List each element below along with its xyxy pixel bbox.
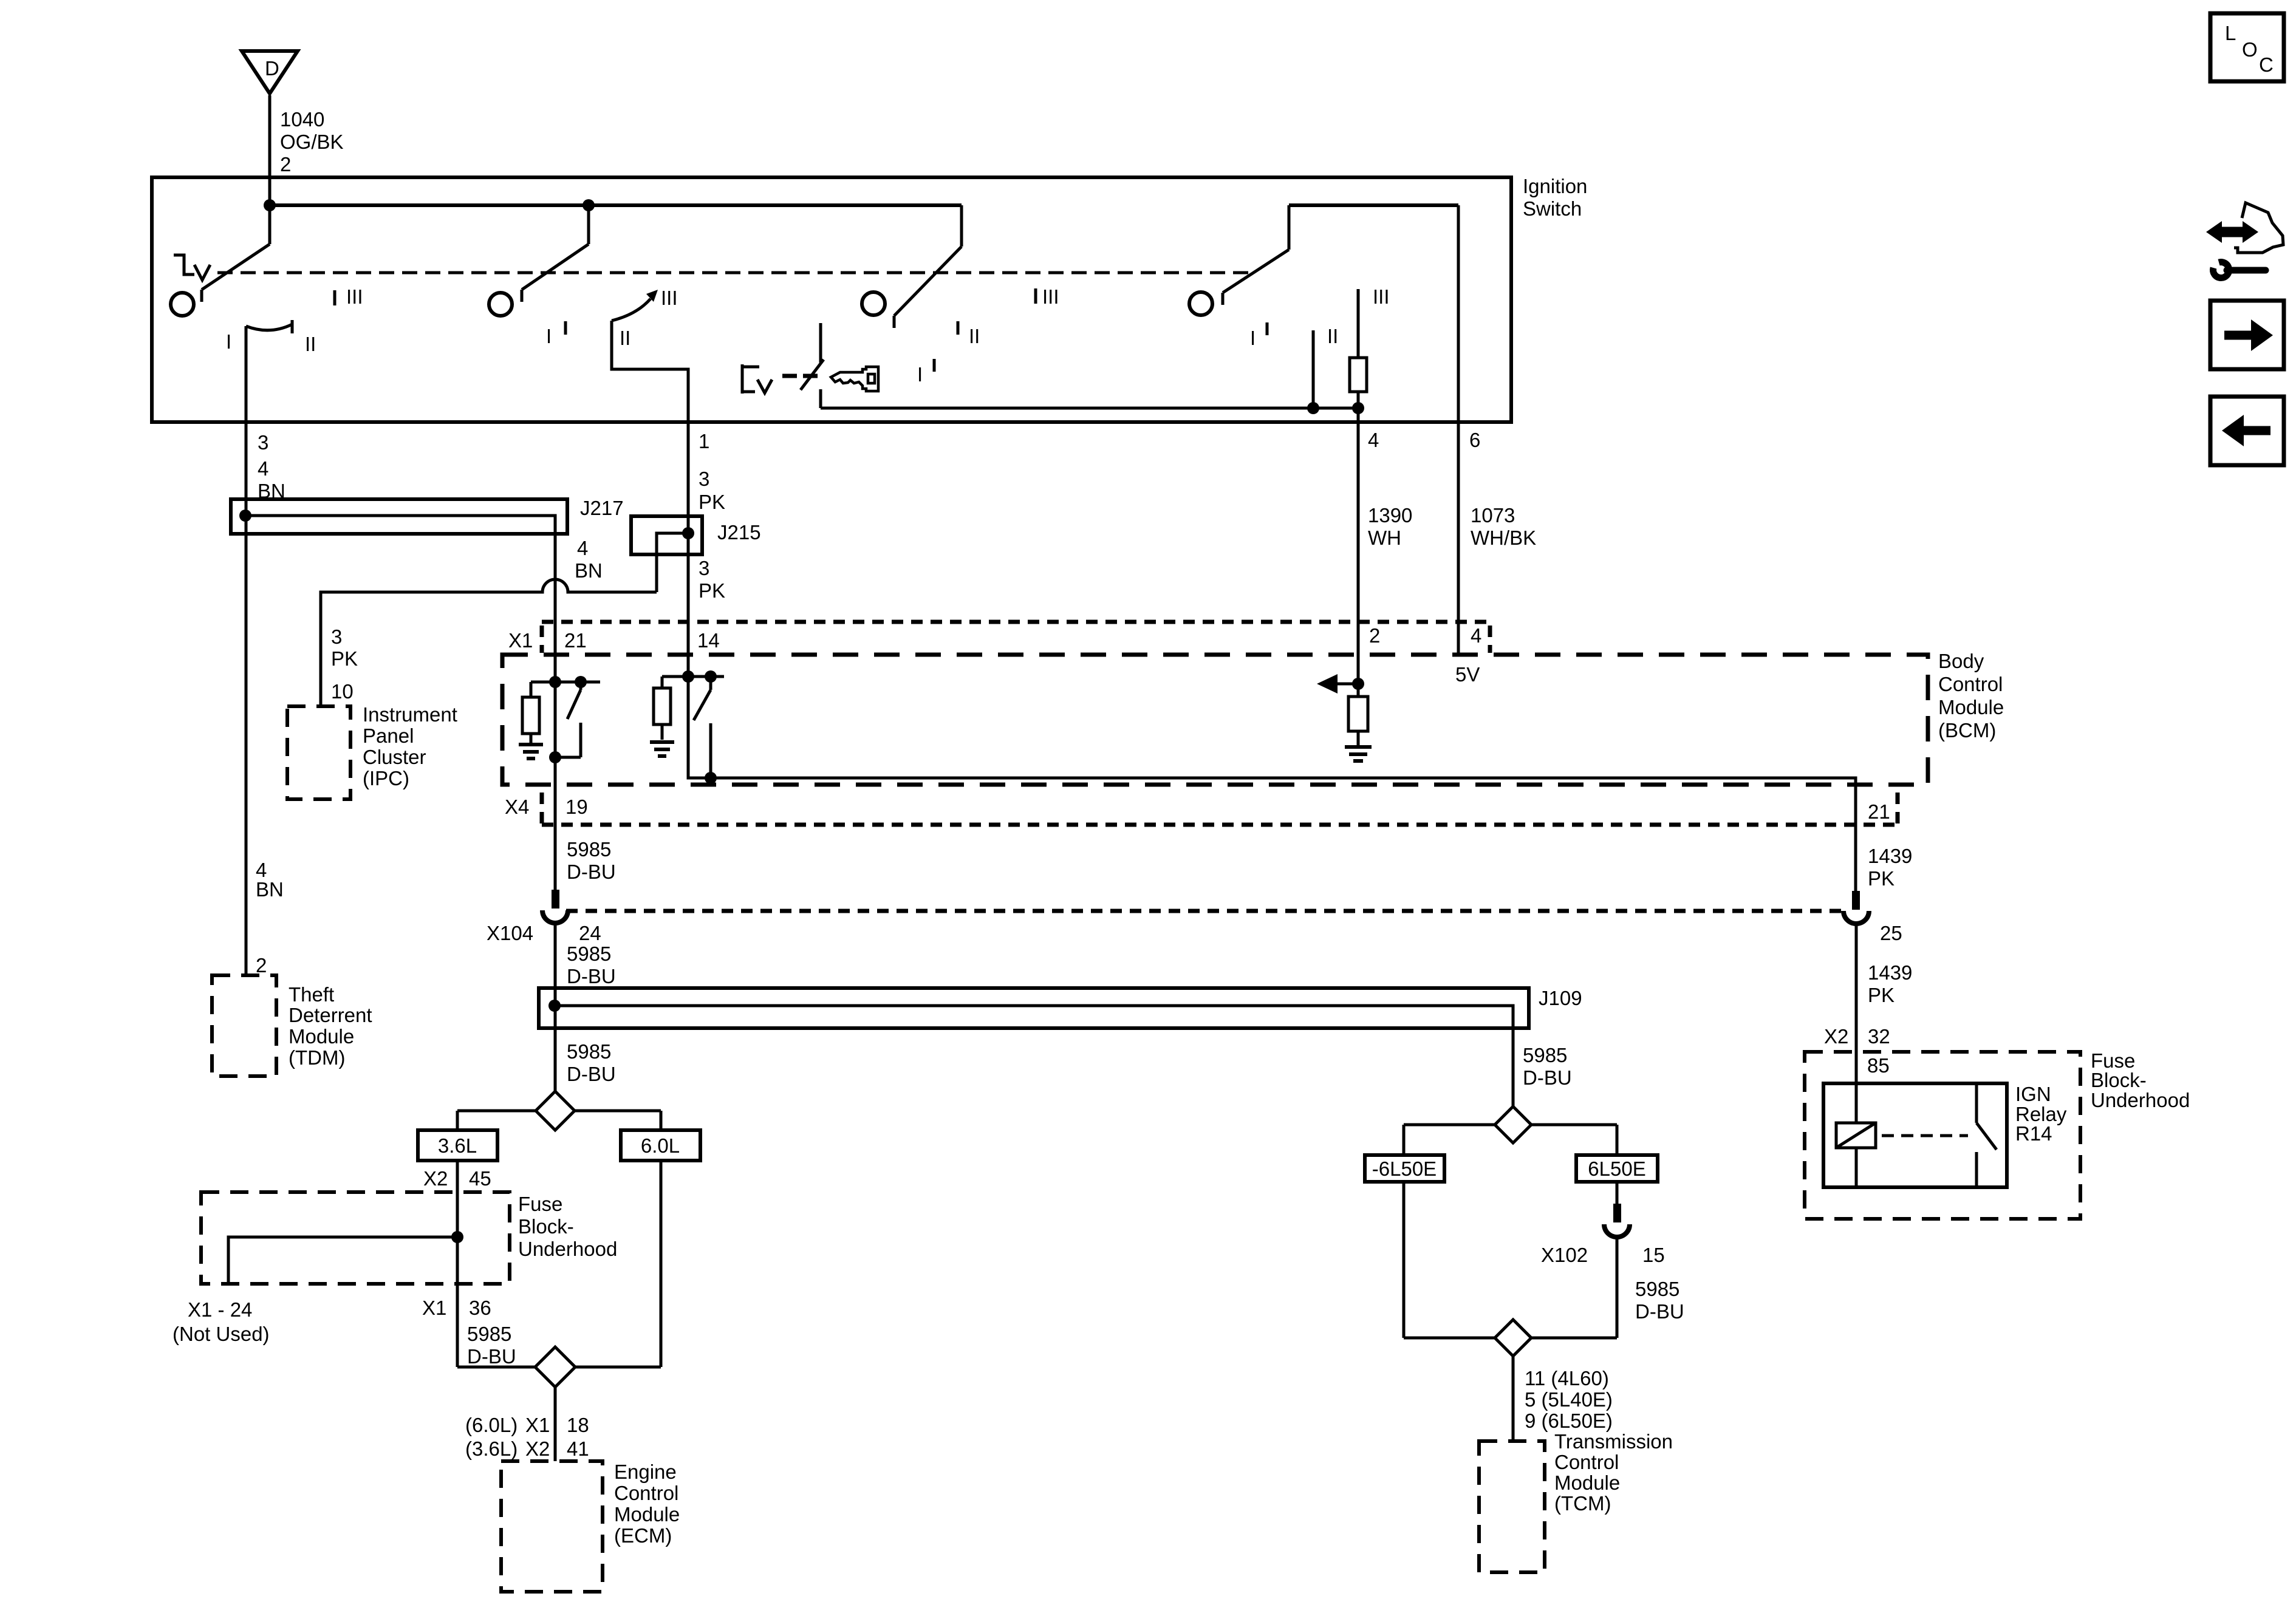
svg-text:5985: 5985	[567, 1040, 611, 1063]
BCM input network at pin 21: main wire	[549, 655, 561, 785]
svg-text:X2: X2	[525, 1437, 550, 1460]
wire 5985 D-BU X102 to diamond	[1617, 1237, 1684, 1338]
svg-text:36: 36	[469, 1297, 491, 1319]
svg-text:85: 85	[1867, 1054, 1890, 1077]
svg-text:X2: X2	[423, 1167, 448, 1190]
svg-text:1073: 1073	[1471, 504, 1515, 527]
svg-text:2: 2	[280, 153, 291, 176]
ground symbol below pin 2 resistor	[1345, 747, 1372, 761]
splice pack J217	[231, 497, 624, 534]
option tag -6L50E	[1365, 1155, 1444, 1182]
svg-text:3.6L: 3.6L	[438, 1134, 477, 1157]
svg-text:(TDM): (TDM)	[289, 1046, 345, 1069]
wire 1073 WH/BK pin6 to BCM	[1458, 205, 1536, 655]
svg-text:21: 21	[564, 629, 587, 652]
svg-text:X1: X1	[525, 1414, 550, 1436]
wire 5985 D-BU J109 left output to engine diamond	[555, 988, 616, 1091]
svg-text:PK: PK	[331, 647, 358, 670]
svg-text:6.0L: 6.0L	[641, 1134, 680, 1157]
svg-text:5985: 5985	[467, 1323, 511, 1345]
transmission option branch diamond	[1495, 1106, 1531, 1143]
svg-text:(TCM): (TCM)	[1554, 1492, 1611, 1515]
svg-text:X4: X4	[505, 796, 529, 818]
wire 5985 D-BU J109 right output to transmission diamond	[1513, 1028, 1572, 1106]
svg-text:D-BU: D-BU	[567, 1063, 616, 1085]
svg-text:11 (4L60): 11 (4L60)	[1525, 1367, 1609, 1389]
ground symbol below pin21 resistor	[519, 745, 543, 759]
splice pack J215	[631, 516, 761, 554]
svg-text:WH: WH	[1368, 527, 1401, 549]
svg-text:5985: 5985	[1523, 1044, 1567, 1066]
svg-text:15: 15	[1642, 1244, 1665, 1266]
svg-text:41: 41	[567, 1437, 589, 1460]
svg-text:Control: Control	[1938, 673, 2003, 695]
svg-text:45: 45	[469, 1167, 491, 1190]
Fuse Block-Underhood left dashed box	[201, 1192, 617, 1284]
fuse block exit labels X1 36	[422, 1297, 491, 1319]
key icon	[831, 367, 878, 391]
svg-text:III: III	[1042, 285, 1059, 308]
switch 4 position III contact wire	[1357, 289, 1360, 358]
wire 1439 PK BCM pin21 output to X104 pin 25	[1868, 845, 1912, 890]
key switch symbol	[742, 360, 824, 394]
wire -6L50E branch down	[1403, 1182, 1406, 1338]
splice pack J109	[539, 987, 1582, 1028]
svg-text:C: C	[2259, 53, 2274, 76]
svg-text:3: 3	[699, 557, 709, 579]
svg-text:1040: 1040	[280, 108, 324, 131]
branch wires to engine option boxes	[457, 1111, 661, 1130]
svg-text:-6L50E: -6L50E	[1372, 1157, 1437, 1180]
svg-text:Deterrent: Deterrent	[289, 1004, 372, 1026]
svg-text:D-BU: D-BU	[1523, 1066, 1572, 1089]
LOC box	[2210, 13, 2284, 81]
svg-text:II: II	[969, 325, 980, 347]
in-line connector X104 pin 24 (left)	[487, 890, 601, 944]
wire 1439 PK X104 to fuse block X2-32	[1824, 924, 1912, 1123]
svg-text:4: 4	[1368, 429, 1379, 451]
svg-text:Underhood: Underhood	[518, 1238, 617, 1260]
fuse block internal wire to X1-24	[173, 1231, 463, 1345]
ignition switch contact 2	[489, 205, 589, 316]
vehicle connector icon: car outline	[2234, 203, 2283, 253]
wire 1390 WH pin4 to BCM	[1358, 408, 1412, 655]
svg-text:X2: X2	[1824, 1025, 1848, 1048]
svg-text:4: 4	[258, 457, 268, 480]
TCM merge diamond	[1495, 1320, 1531, 1356]
BCM pin21 branch resistor	[522, 682, 555, 743]
wire 4 BN to TDM	[256, 859, 284, 977]
svg-text:J217: J217	[580, 497, 624, 519]
svg-text:BN: BN	[575, 559, 603, 582]
svg-text:Switch: Switch	[1523, 197, 1582, 220]
BCM arrow at pin 2 input	[1317, 655, 1364, 697]
svg-text:10: 10	[331, 680, 354, 703]
switch 3 position marks	[917, 285, 1059, 386]
svg-text:Control: Control	[614, 1482, 678, 1504]
svg-text:X1: X1	[508, 629, 533, 652]
Engine Control Module ECM box	[501, 1461, 680, 1592]
svg-text:I: I	[1250, 327, 1256, 349]
svg-text:(IPC): (IPC)	[363, 767, 409, 789]
svg-text:Instrument: Instrument	[363, 703, 457, 726]
svg-text:II: II	[1327, 325, 1338, 347]
BCM pin21 branch switch	[555, 676, 600, 757]
key switch wire to output node	[821, 323, 1364, 414]
wire 5985 D-BU X104 to J109	[555, 923, 616, 988]
svg-text:2: 2	[256, 954, 267, 977]
svg-text:4: 4	[1471, 624, 1481, 647]
svg-text:III: III	[346, 285, 363, 308]
ignition switch box	[152, 175, 1587, 422]
svg-text:R14: R14	[2015, 1122, 2052, 1145]
ignition position dashed line	[217, 271, 1255, 274]
wire 4 BN from J217 to BCM pin 21	[555, 534, 603, 890]
svg-text:(BCM): (BCM)	[1938, 719, 1996, 742]
svg-text:WH/BK: WH/BK	[1471, 527, 1536, 549]
svg-text:14: 14	[697, 629, 720, 652]
svg-text:Control: Control	[1554, 1451, 1619, 1473]
svg-text:1: 1	[699, 430, 709, 452]
switch 4 position marks	[1250, 285, 1390, 349]
svg-text:Module: Module	[289, 1025, 354, 1048]
accessory symbol	[174, 255, 210, 280]
svg-text:X102: X102	[1541, 1244, 1588, 1266]
svg-text:Module: Module	[614, 1503, 680, 1526]
wire 5985 D-BU BCM X4-19 to X104	[567, 838, 616, 883]
svg-text:L: L	[2225, 22, 2236, 44]
svg-text:J215: J215	[717, 521, 761, 544]
svg-text:1439: 1439	[1868, 961, 1912, 984]
connector X104 dashed line	[566, 909, 1843, 913]
svg-text:O: O	[2242, 38, 2258, 61]
Fuse Block-Underhood right dashed box	[1805, 1049, 2190, 1219]
svg-text:J109: J109	[1539, 987, 1582, 1009]
svg-text:D-BU: D-BU	[1635, 1300, 1684, 1323]
svg-text:Underhood: Underhood	[2091, 1089, 2190, 1111]
wire 1040 OG/BK from D to ignition switch	[270, 95, 344, 205]
wire to TCM	[1513, 1356, 1613, 1441]
svg-text:(3.6L): (3.6L)	[465, 1437, 518, 1460]
svg-text:1439: 1439	[1868, 845, 1912, 867]
wire 5985 D-BU fuse block to ECM diamond	[467, 1323, 516, 1368]
svg-text:Transmission: Transmission	[1554, 1430, 1673, 1453]
svg-text:I: I	[917, 363, 923, 386]
svg-text:OG/BK: OG/BK	[280, 131, 344, 153]
svg-text:5985: 5985	[1635, 1278, 1679, 1300]
wire 3.6L to fuse block X2-45	[423, 1161, 491, 1367]
in-line connector X104 pin 25 (right)	[1843, 891, 1902, 944]
svg-text:II: II	[620, 327, 630, 349]
BCM pull-down resistor at pin 2	[1348, 697, 1368, 746]
svg-text:Module: Module	[1938, 696, 2004, 718]
svg-text:Theft: Theft	[289, 983, 334, 1006]
switch 4 position II contact wire	[1312, 330, 1315, 408]
ECM merge diamond	[535, 1347, 575, 1387]
bottom joining wire	[457, 1366, 661, 1369]
switch 2 output wire to pin 1	[612, 321, 688, 516]
svg-text:X1: X1	[422, 1297, 446, 1319]
switch 1 position marks I II III	[226, 285, 363, 355]
branch wires to transmission option boxes	[1404, 1125, 1617, 1155]
Transmission Control Module TCM box	[1479, 1430, 1673, 1572]
svg-text:Fuse: Fuse	[518, 1193, 562, 1215]
wire 6L50E branch to X102	[1616, 1182, 1619, 1204]
wire 6.0L branch down	[660, 1161, 663, 1367]
svg-text:Ignition: Ignition	[1523, 175, 1587, 197]
wire J215 output to IPC with hop over J217 wire	[321, 554, 657, 706]
svg-text:5985: 5985	[567, 838, 611, 861]
wire 3 PK label to IPC	[331, 626, 358, 703]
ignition switch contact 4	[1189, 205, 1289, 315]
svg-text:3: 3	[258, 431, 268, 454]
relay coil	[1836, 1123, 1876, 1187]
svg-text:5 (5L40E): 5 (5L40E)	[1525, 1388, 1613, 1411]
BCM pin14 branch switch	[688, 670, 724, 778]
svg-text:D-BU: D-BU	[567, 861, 616, 883]
Body Control Module BCM dashed box	[502, 650, 2004, 785]
svg-text:(Not Used): (Not Used)	[173, 1323, 270, 1345]
svg-text:IGN: IGN	[2015, 1083, 2051, 1105]
svg-text:PK: PK	[1868, 984, 1895, 1006]
wire 3 PK ignition pin1 to J215	[699, 468, 725, 513]
svg-text:18: 18	[567, 1414, 589, 1436]
BCM connector X1 line	[508, 622, 1490, 653]
relay coil to contact dashed link	[1882, 1134, 1968, 1137]
svg-text:III: III	[661, 287, 678, 309]
svg-text:6L50E: 6L50E	[1588, 1157, 1645, 1180]
svg-text:Body: Body	[1938, 650, 1984, 672]
svg-text:Block-: Block-	[2091, 1069, 2147, 1091]
option tag 6L50E	[1576, 1155, 1658, 1182]
svg-text:II: II	[305, 333, 316, 355]
in-line connector X102 pin 15	[1541, 1204, 1665, 1266]
svg-text:4: 4	[577, 537, 588, 559]
ground symbol below pin14 resistor	[650, 742, 674, 756]
ignition switch contact 3	[862, 205, 962, 328]
back arrow box	[2210, 397, 2284, 465]
svg-text:5985: 5985	[567, 943, 611, 965]
resistor inside ignition switch	[1350, 358, 1367, 408]
svg-text:1390: 1390	[1368, 504, 1412, 527]
IGN Relay R14 box	[1823, 1083, 2067, 1187]
vehicle connector icon: wrench	[2213, 262, 2266, 278]
svg-text:D: D	[265, 57, 279, 80]
ignition internal bus 1	[264, 199, 962, 211]
svg-text:X1 - 24: X1 - 24	[188, 1298, 252, 1321]
BCM input network at pin 14: main wire	[682, 670, 1856, 891]
wire to ECM	[465, 1387, 589, 1461]
forward arrow box	[2210, 301, 2284, 369]
wire 3 PK from J215 through wire down to BCM pin 14	[688, 516, 725, 677]
svg-text:19: 19	[565, 796, 588, 818]
svg-text:24: 24	[579, 922, 601, 944]
svg-text:(ECM): (ECM)	[614, 1524, 672, 1547]
Instrument Panel Cluster IPC box	[287, 703, 457, 799]
wire 4 BN ignition pin3 to J217	[246, 326, 285, 975]
svg-text:3: 3	[331, 626, 342, 648]
BCM pin14 branch resistor	[654, 677, 688, 740]
engine option branch diamond	[536, 1091, 575, 1130]
ignition switch contact 1	[171, 205, 270, 316]
svg-text:PK: PK	[699, 491, 725, 513]
bottom joining wire transmission	[1404, 1337, 1617, 1340]
svg-text:BN: BN	[256, 878, 284, 901]
svg-text:9 (6L50E): 9 (6L50E)	[1525, 1410, 1613, 1432]
vehicle connector icon: double arrow	[2206, 221, 2258, 243]
svg-text:PK: PK	[1868, 867, 1895, 890]
connector D triangle	[242, 51, 298, 94]
svg-text:21: 21	[1868, 800, 1890, 823]
svg-text:X104: X104	[487, 922, 533, 944]
svg-text:D-BU: D-BU	[467, 1345, 516, 1368]
BCM connector X4 line	[505, 793, 1898, 825]
option tag 3.6L	[418, 1130, 497, 1161]
svg-text:I: I	[546, 325, 552, 347]
svg-text:(6.0L): (6.0L)	[465, 1414, 518, 1436]
svg-text:25: 25	[1880, 922, 1902, 944]
svg-text:D-BU: D-BU	[567, 965, 616, 987]
svg-text:III: III	[1373, 285, 1390, 308]
Theft Deterrent Module TDM box	[212, 975, 372, 1076]
switch 2 position marks	[546, 287, 678, 349]
relay contact switch	[1977, 1083, 1997, 1187]
svg-text:5V: 5V	[1455, 663, 1480, 686]
svg-text:Panel: Panel	[363, 724, 414, 747]
svg-text:PK: PK	[699, 579, 725, 602]
svg-text:2: 2	[1369, 624, 1380, 647]
svg-text:I: I	[226, 330, 231, 353]
svg-text:Engine: Engine	[614, 1461, 677, 1483]
option tag 6.0L	[621, 1130, 700, 1161]
ignition internal bus 2	[1289, 203, 1458, 207]
svg-text:Block-: Block-	[518, 1215, 574, 1238]
svg-text:6: 6	[1469, 429, 1480, 451]
svg-text:Cluster: Cluster	[363, 746, 426, 768]
svg-text:32: 32	[1868, 1025, 1890, 1048]
svg-text:Module: Module	[1554, 1471, 1620, 1494]
svg-text:3: 3	[699, 468, 709, 490]
